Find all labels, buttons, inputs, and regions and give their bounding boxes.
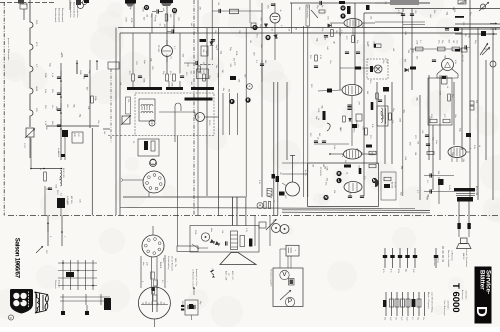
svg-text:Ratio: Ratio: [353, 128, 356, 132]
svg-text:1k: 1k: [346, 172, 348, 174]
svg-text:4 x 1,5: 4 x 1,5: [304, 170, 306, 176]
svg-text:10n: 10n: [456, 40, 458, 43]
svg-text:MIT 64S: MIT 64S: [70, 196, 72, 204]
svg-text:330k: 330k: [181, 301, 183, 305]
svg-text:MAI 66: MAI 66: [462, 253, 465, 260]
svg-text:330k: 330k: [194, 230, 196, 234]
svg-text:0,1: 0,1: [411, 317, 413, 320]
svg-text:1M: 1M: [366, 44, 368, 47]
svg-text:0,1: 0,1: [161, 280, 163, 283]
svg-text:8,2k: 8,2k: [473, 145, 475, 149]
svg-text:M: M: [151, 123, 153, 126]
svg-text:470k: 470k: [381, 115, 383, 119]
svg-text:470k: 470k: [125, 17, 127, 21]
svg-text:0,47: 0,47: [412, 269, 414, 273]
svg-text:100k: 100k: [317, 108, 319, 112]
svg-text:4,7k: 4,7k: [371, 124, 373, 128]
svg-text:100k: 100k: [399, 118, 401, 122]
svg-text:Antennenbuchse: Antennenbuchse: [69, 2, 72, 18]
svg-text:AL/TOE: AL/TOE: [391, 182, 394, 189]
svg-text:BLACK: BLACK: [159, 262, 162, 269]
svg-text:8,2k: 8,2k: [373, 41, 375, 45]
svg-text:12k: 12k: [421, 130, 423, 133]
svg-text:von der Rückseite: von der Rückseite: [170, 256, 173, 271]
svg-text:Bereichsumsch.: Bereichsumsch.: [61, 8, 64, 23]
svg-text:8,2k: 8,2k: [439, 91, 441, 95]
svg-text:A: A: [259, 203, 262, 208]
svg-text:1k: 1k: [279, 9, 281, 11]
svg-text:10n: 10n: [370, 16, 372, 19]
svg-text:A19 - 6 V: A19 - 6 V: [231, 271, 234, 280]
svg-text:Antennenbuchse: Antennenbuchse: [72, 2, 75, 18]
svg-text:1M: 1M: [221, 70, 223, 73]
svg-text:12k: 12k: [386, 60, 388, 63]
svg-text:10n: 10n: [260, 44, 262, 47]
svg-text:1k: 1k: [215, 48, 217, 50]
svg-text:12k: 12k: [384, 1, 386, 4]
svg-text:zur Reparatur und beim: zur Reparatur und beim: [192, 269, 195, 288]
svg-text:sowie 300 mV, 1,5V Ausg.: sowie 300 mV, 1,5V Ausg.: [430, 292, 433, 313]
svg-text:1k: 1k: [446, 86, 448, 88]
svg-text:gemess. m. Röhrenvoltm.: gemess. m. Röhrenvoltm.: [7, 38, 10, 61]
svg-text:100k: 100k: [416, 40, 418, 44]
svg-text:33k: 33k: [154, 18, 156, 21]
svg-text:8,2k: 8,2k: [271, 27, 273, 31]
svg-text:1k: 1k: [478, 145, 480, 147]
svg-text:15k: 15k: [237, 79, 239, 82]
svg-text:15k: 15k: [295, 27, 297, 30]
svg-text:47n: 47n: [169, 71, 171, 74]
svg-text:39p: 39p: [417, 317, 419, 320]
svg-text:P: P: [198, 116, 200, 120]
svg-text:NTC: NTC: [73, 133, 75, 138]
svg-text:gelb: gelb: [146, 262, 148, 266]
svg-text:47n: 47n: [327, 16, 329, 19]
svg-text:4,7k: 4,7k: [390, 269, 392, 273]
svg-text:Netz: Netz: [210, 228, 213, 232]
svg-text:Schalterstellung: Schalterstellung: [167, 256, 170, 269]
svg-text:vorbehalten: vorbehalten: [446, 300, 449, 309]
svg-text:22n: 22n: [438, 40, 440, 43]
svg-text:0,47: 0,47: [389, 317, 391, 321]
svg-text:Gedruckt i. Deutschland: Gedruckt i. Deutschland: [465, 248, 468, 267]
svg-text:1M: 1M: [332, 41, 334, 44]
svg-text:Netzspannungswähler: Netzspannungswähler: [270, 269, 273, 287]
svg-text:B: B: [267, 35, 270, 40]
svg-text:D: D: [473, 306, 490, 317]
svg-text:Bereichsumsch.: Bereichsumsch.: [54, 8, 57, 23]
svg-text:Gleichricht.: Gleichricht.: [54, 280, 57, 289]
svg-text:6,8n: 6,8n: [333, 145, 335, 149]
svg-text:P: P: [288, 298, 293, 305]
svg-text:470k: 470k: [130, 18, 132, 22]
svg-text:Techn. Änderungen: Techn. Änderungen: [443, 300, 446, 316]
svg-text:10n: 10n: [190, 70, 192, 73]
svg-text:Blätter: Blätter: [478, 270, 485, 290]
svg-text:U: U: [342, 5, 345, 10]
svg-text:N: N: [325, 195, 328, 200]
svg-text:100k: 100k: [55, 106, 57, 110]
svg-text:12k: 12k: [462, 159, 464, 162]
svg-text:G: G: [145, 5, 148, 10]
svg-text:33k: 33k: [150, 58, 152, 61]
svg-text:47n: 47n: [341, 154, 343, 157]
svg-text:B1967-203: B1967-203: [62, 168, 64, 179]
svg-text:V: V: [282, 271, 287, 278]
svg-text:330k: 330k: [143, 78, 145, 82]
svg-text:Das techn. Schaltbild: Das techn. Schaltbild: [447, 250, 450, 267]
svg-text:15k: 15k: [202, 49, 204, 52]
svg-text:8,2k: 8,2k: [404, 31, 406, 35]
svg-text:vorbehalten: vorbehalten: [464, 290, 467, 299]
svg-text:1k: 1k: [316, 137, 318, 139]
svg-text:blau: blau: [142, 262, 144, 266]
svg-text:Tonabnehmer: Tonabnehmer: [433, 255, 435, 266]
svg-text:22n: 22n: [454, 114, 456, 117]
svg-text:1M: 1M: [312, 164, 314, 167]
svg-text:97 204: 97 204: [394, 182, 396, 188]
svg-text:47n: 47n: [97, 120, 99, 123]
svg-text:42 L 78: 42 L 78: [461, 55, 463, 62]
svg-text:33k: 33k: [400, 166, 402, 169]
svg-text:4,7k: 4,7k: [397, 10, 399, 14]
svg-text:22n: 22n: [380, 111, 382, 114]
svg-text:47n: 47n: [369, 80, 371, 83]
svg-text:6,8n: 6,8n: [143, 60, 145, 64]
svg-text:330k: 330k: [171, 82, 173, 86]
svg-text:6,8n: 6,8n: [435, 140, 437, 144]
svg-text:33k: 33k: [437, 171, 439, 174]
svg-text:Ersatzteil: Ersatzteil: [57, 280, 60, 288]
svg-text:470k: 470k: [142, 7, 144, 11]
svg-text:6,8n: 6,8n: [187, 63, 189, 67]
svg-text:8,2k: 8,2k: [55, 185, 57, 189]
svg-text:22n: 22n: [266, 5, 268, 8]
svg-text:10n: 10n: [215, 65, 217, 68]
svg-text:C 13: C 13: [23, 143, 25, 148]
svg-text:12k: 12k: [165, 54, 167, 57]
svg-text:PCH 200: PCH 200: [319, 167, 321, 176]
svg-text:47n: 47n: [255, 34, 257, 37]
svg-text:12k: 12k: [217, 2, 219, 5]
svg-text:od.: od.: [228, 273, 230, 276]
svg-text:12k: 12k: [119, 82, 121, 85]
svg-text:33k: 33k: [333, 190, 335, 193]
svg-text:4x AA113: 4x AA113: [57, 148, 60, 158]
svg-text:12k: 12k: [221, 230, 223, 233]
svg-text:330k: 330k: [216, 73, 218, 77]
svg-text:12k: 12k: [145, 14, 147, 17]
svg-text:6: 6: [141, 281, 143, 282]
svg-text:15k: 15k: [414, 152, 416, 155]
svg-text:V: V: [342, 13, 345, 18]
svg-text:22n: 22n: [415, 56, 417, 59]
svg-text:T 6000: T 6000: [450, 283, 461, 313]
svg-text:4,7k: 4,7k: [400, 317, 402, 320]
svg-text:AM-Verstärker: AM-Verstärker: [306, 6, 309, 18]
svg-text:47n: 47n: [232, 58, 234, 61]
svg-text:anschluss: anschluss: [436, 255, 438, 263]
svg-text:33k: 33k: [87, 106, 89, 109]
svg-text:1M: 1M: [249, 40, 251, 43]
svg-text:15k: 15k: [238, 30, 240, 33]
svg-text:39p: 39p: [384, 317, 386, 320]
svg-text:1M: 1M: [427, 194, 429, 197]
svg-text:10n: 10n: [361, 126, 363, 129]
svg-text:Saison 1966/67: Saison 1966/67: [13, 238, 20, 279]
svg-text:4,7k: 4,7k: [245, 228, 247, 232]
svg-text:220: 220: [127, 99, 129, 102]
svg-text:470k: 470k: [235, 51, 237, 55]
svg-text:470k: 470k: [397, 269, 399, 273]
svg-text:ST-66: ST-66: [208, 120, 210, 126]
svg-text:8,2k: 8,2k: [404, 156, 406, 160]
svg-text:Bereichsumsch.: Bereichsumsch.: [57, 8, 60, 23]
svg-text:4,7k: 4,7k: [391, 120, 393, 124]
svg-text:12k: 12k: [417, 141, 419, 144]
svg-text:2k2: 2k2: [202, 70, 204, 73]
svg-text:Allgem. u. Eingängen: Allgem. u. Eingängen: [427, 292, 430, 309]
svg-text:K: K: [338, 171, 341, 176]
svg-text:47n: 47n: [348, 193, 350, 196]
svg-text:Antennenbuchse: Antennenbuchse: [76, 2, 79, 18]
svg-text:4,7k: 4,7k: [258, 180, 260, 184]
svg-text:8,2k: 8,2k: [287, 27, 289, 31]
svg-text:10n: 10n: [329, 60, 331, 63]
svg-text:6,8n: 6,8n: [361, 24, 363, 28]
svg-text:braun: braun: [162, 258, 165, 263]
svg-text:4,7k: 4,7k: [382, 269, 384, 273]
svg-text:1M: 1M: [452, 40, 454, 43]
svg-text:A19 - 1 W: A19 - 1 W: [225, 271, 228, 280]
svg-text:470k: 470k: [468, 33, 470, 37]
svg-text:8,2k: 8,2k: [454, 60, 456, 64]
svg-text:0,8 A: 0,8 A: [448, 185, 451, 190]
svg-text:zur Reparatur: zur Reparatur: [450, 250, 453, 261]
svg-text:4,7k: 4,7k: [319, 55, 321, 59]
svg-text:R: R: [10, 316, 12, 320]
svg-text:47n: 47n: [325, 182, 327, 185]
svg-text:1M: 1M: [45, 127, 47, 130]
svg-text:22n: 22n: [222, 88, 224, 91]
svg-text:10n: 10n: [395, 317, 397, 320]
svg-text:33k: 33k: [475, 100, 477, 103]
svg-text:BD Lp 194: BD Lp 194: [475, 186, 477, 195]
svg-text:PC 900: PC 900: [157, 45, 159, 53]
svg-text:8,2k: 8,2k: [196, 28, 198, 32]
svg-text:8,2k: 8,2k: [360, 152, 362, 156]
svg-text:0,47: 0,47: [406, 317, 408, 321]
svg-text:10n: 10n: [214, 30, 216, 33]
svg-text:E: E: [247, 97, 250, 102]
svg-text:6,8n: 6,8n: [161, 49, 163, 53]
svg-text:Austausch von Teilen: Austausch von Teilen: [195, 269, 198, 286]
svg-text:10n: 10n: [422, 317, 424, 320]
